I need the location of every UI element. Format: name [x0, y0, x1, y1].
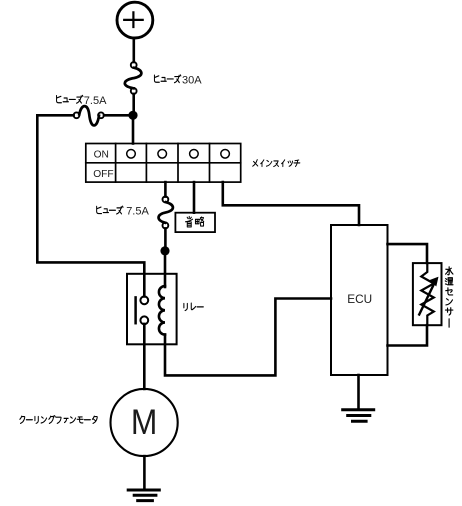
fuse F2 7.5A (left): [74, 106, 104, 125]
main switch SW1 box: [86, 144, 241, 183]
label omitted (SHOURYAKU): [185, 216, 203, 227]
ground GND2 (motor): [128, 490, 159, 501]
svg-text:30A: 30A: [182, 74, 202, 86]
label OFF: [93, 169, 113, 180]
svg-text:ON: ON: [94, 150, 109, 161]
svg-text:ECU: ECU: [347, 292, 372, 306]
wire fuse F2 to relay contact (left branch): [37, 115, 144, 296]
wire fuse F3 to node B: [164, 228, 167, 251]
wire relay contact to motor: [143, 324, 146, 389]
ground GND1 (ECU): [343, 410, 374, 421]
fuse F3 7.5A (below switch): [159, 197, 173, 229]
wire ECU to ground: [357, 375, 360, 410]
wire battery to fuse F1: [133, 39, 136, 62]
thermistor TH1: [419, 264, 438, 326]
label relay (RIREE): [184, 303, 203, 310]
svg-text:7.5A: 7.5A: [84, 95, 107, 107]
label ON: [94, 150, 109, 161]
label main switch (MAIN SWITCH): [253, 160, 300, 167]
switch contact circle pole3: [158, 150, 167, 159]
fuse F1 30A: [125, 62, 142, 94]
wire fuse F1 to node A: [132, 94, 135, 115]
svg-text:M: M: [131, 404, 157, 443]
wire node A to fuse F2: [104, 114, 129, 117]
label fuse 30A (HYUUZU 30A): [154, 74, 202, 86]
svg-text:OFF: OFF: [93, 169, 113, 180]
wire relay coil to ECU: [165, 299, 331, 376]
omitted circuits box (SHOURYAKU): [175, 213, 215, 232]
label water temp sensor (SUION SENSOR) vertical: [445, 267, 453, 327]
wire motor to ground: [143, 456, 146, 489]
wire ECU to water temp sensor top: [388, 244, 428, 263]
switch contact circle pole5: [221, 150, 230, 159]
svg-text:7.5A: 7.5A: [126, 206, 149, 218]
switch contact circle pole4: [190, 150, 199, 159]
battery B+: [117, 2, 153, 38]
relay contact terminal top: [140, 296, 148, 304]
relay coil L1: [159, 286, 165, 335]
wire node B to relay coil: [164, 251, 167, 287]
label fuse 7.5A mid: [97, 206, 150, 218]
label fuse 7.5A left: [57, 95, 108, 107]
switch contact circle pole2: [127, 150, 136, 159]
node A junction dot: [128, 111, 137, 120]
label cooling fan motor (KUURINGU FAN MOOTA): [20, 416, 97, 424]
wire switch pole4 to omitted box: [193, 182, 196, 213]
cooling fan motor M1: [111, 389, 178, 456]
relay contact terminal bottom: [140, 316, 148, 324]
relay RY1 box: [127, 274, 177, 345]
label ECU: [347, 292, 372, 306]
ECU U1 box: [331, 225, 388, 375]
node B junction dot: [160, 246, 169, 255]
wire switch pole5 to ECU: [223, 182, 359, 225]
label M (motor): [131, 404, 157, 443]
wire node A to main switch: [132, 115, 135, 144]
water temp sensor box: [413, 263, 442, 325]
wire switch pole3 to fuse F3: [164, 182, 167, 197]
wire water temp sensor bottom to ECU: [388, 325, 428, 345]
relay contact bar: [134, 297, 137, 323]
